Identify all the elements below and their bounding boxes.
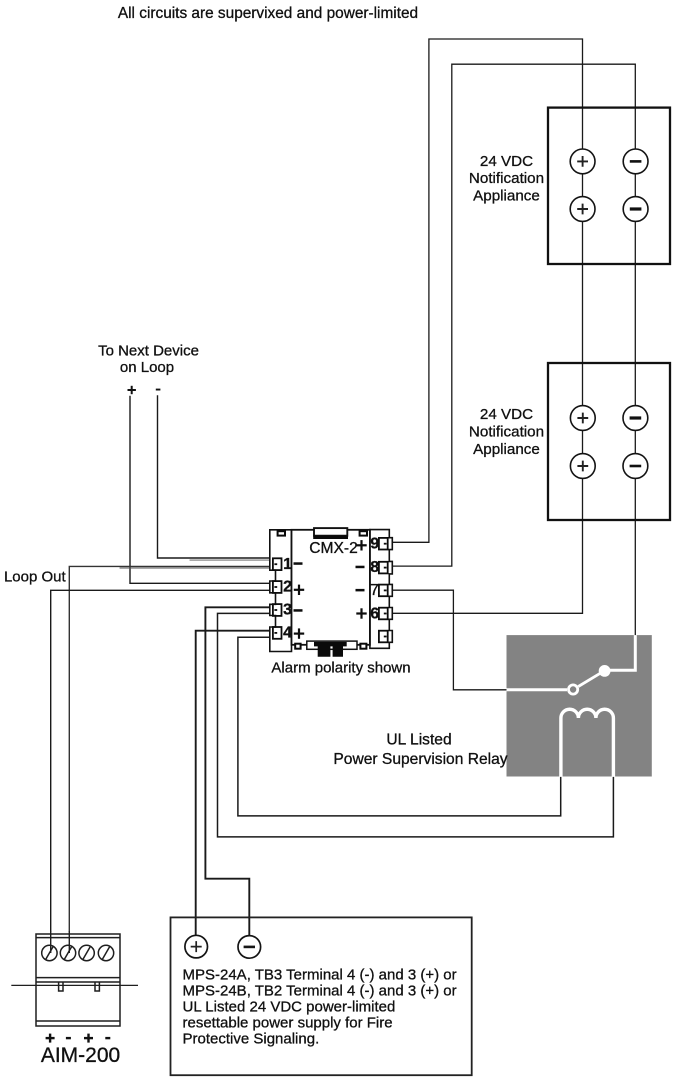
relay body: [507, 635, 652, 776]
appliance box 1 outline: [548, 108, 670, 264]
svg-text:Appliance: Appliance: [473, 441, 540, 458]
svg-text:8: 8: [370, 559, 379, 576]
svg-text:UL Listed: UL Listed: [386, 732, 451, 749]
relay contact to top wire: [605, 635, 636, 670]
CMX-2 module U1: [270, 528, 393, 657]
svg-text:24 VDC: 24 VDC: [480, 153, 533, 170]
terminal - circle B3: [623, 406, 648, 431]
AIM polarity labels: [46, 1034, 111, 1043]
terminal clip 8: [379, 562, 388, 574]
AIM screw 1: [42, 945, 57, 960]
next device +: [128, 386, 136, 394]
terminal clip 3: [273, 604, 282, 616]
terminal - circle A3: [623, 149, 648, 174]
svg-text:Notification: Notification: [469, 423, 544, 440]
relay contact arm: [578, 673, 601, 687]
UL Listed Power Supervision Relay K1: [333, 635, 651, 777]
24 VDC Notification Appliance box 1: [469, 108, 670, 264]
wire next-device + to terminal 2: [130, 397, 275, 584]
terminal + circle A1: [570, 149, 595, 174]
AIM screw 2: [60, 945, 75, 960]
svg-text:6: 6: [370, 605, 379, 622]
svg-text:Protective Signaling.: Protective Signaling.: [183, 1031, 320, 1048]
top connector: [314, 528, 347, 536]
module body: [292, 530, 370, 645]
svg-text:All circuits are supervixed an: All circuits are supervixed and power-li…: [118, 5, 418, 22]
MPS + terminal: [185, 935, 208, 958]
wire double-line detail terminal 1: [120, 560, 274, 568]
top-right hole: [360, 531, 367, 535]
polarity sign - pin7: [356, 589, 365, 592]
terminal clip 9: [379, 538, 388, 550]
svg-text:MPS-24B, TB2 Terminal 4 (-) an: MPS-24B, TB2 Terminal 4 (-) and 3 (+) or: [183, 982, 457, 999]
svg-text:Alarm polarity shown: Alarm polarity shown: [271, 659, 410, 676]
svg-text:Power Supervision Relay: Power Supervision Relay: [333, 751, 507, 768]
polarity sign - pin1: [294, 562, 303, 565]
AIM bottom line: [36, 1020, 120, 1022]
24 VDC Notification Appliance box 2: [469, 363, 670, 520]
polarity sign + pin4: [294, 628, 304, 638]
MPS box outline: [171, 917, 472, 1075]
AIM-200 body: [36, 934, 120, 1026]
svg-text:MPS-24A, TB3 Terminal 4 (-) an: MPS-24A, TB3 Terminal 4 (-) and 3 (+) or: [183, 966, 457, 983]
MPS - terminal: [238, 936, 261, 959]
terminal - circle B4: [623, 454, 648, 479]
terminal clip 4: [273, 627, 282, 639]
svg-text:1: 1: [283, 556, 292, 573]
svg-text:7: 7: [370, 582, 379, 599]
wire into screw 1: [50, 931, 52, 953]
polarity sign + pin2: [294, 585, 304, 595]
svg-text:AIM-200: AIM-200: [41, 1044, 120, 1067]
svg-text:3: 3: [283, 602, 292, 619]
AIM clip 2: [95, 982, 99, 991]
left terminal strip: [270, 530, 292, 652]
AIM-200 terminal block: [11, 931, 138, 1067]
wire into screw 2: [68, 931, 70, 953]
bottom connector black key: [314, 642, 347, 657]
terminal + circle B2: [570, 454, 595, 479]
relay contact pole circle: [569, 685, 578, 694]
relay contact common line: [507, 688, 568, 691]
svg-text:resettable power supply for Fi: resettable power supply for Fire: [183, 1015, 393, 1032]
AIM screw 4: [98, 945, 113, 960]
svg-text:Loop Out: Loop Out: [4, 568, 67, 585]
terminal clip 5 unlabeled: [379, 631, 388, 643]
svg-text:4: 4: [283, 625, 292, 642]
terminal + circle B1: [570, 406, 595, 431]
terminal clip 6: [379, 608, 388, 620]
terminal - circle A4: [623, 197, 648, 222]
bottom-left hole: [295, 644, 300, 649]
svg-text:UL Listed 24 VDC power-limited: UL Listed 24 VDC power-limited: [183, 999, 396, 1016]
terminal clip 2: [273, 581, 282, 593]
relay coil L1: [561, 709, 614, 777]
svg-text:Appliance: Appliance: [473, 188, 540, 205]
bottom-right hole: [360, 644, 366, 649]
wire terminal 4 to MPS +: [196, 631, 275, 936]
svg-text:Notification: Notification: [469, 170, 544, 187]
AIM top inner line: [36, 937, 120, 939]
AIM divider lines: [36, 977, 120, 979]
svg-text:24 VDC: 24 VDC: [480, 406, 533, 423]
svg-text:2: 2: [283, 579, 292, 596]
relay contact fixed dot: [599, 665, 611, 677]
polarity sign + pin9: [356, 540, 366, 550]
bottom connector housing: [307, 641, 357, 649]
wire net NAC- : CMX-2 terminal 8 up over top down through - terminals to relay switch: [387, 64, 635, 636]
wire loop out A : terminal 1 to AIM-200 screw 2: [69, 566, 275, 931]
MPS power supply box: [171, 917, 472, 1075]
appliance box 2 outline: [548, 363, 670, 520]
AIM mounting line: [11, 984, 138, 986]
terminal clip 7: [379, 585, 388, 597]
wire terminal 7 to relay switch common: [387, 590, 508, 690]
svg-text:9: 9: [370, 535, 379, 552]
polarity sign + pin6: [356, 608, 366, 618]
wire terminal 4 to relay coil left leg: [238, 637, 561, 816]
wire terminal 3 to MPS -: [205, 607, 275, 936]
terminal clip 1: [273, 558, 282, 570]
polarity sign - pin8: [356, 566, 365, 569]
next device -: [156, 389, 161, 391]
svg-text:CMX-2: CMX-2: [309, 540, 358, 557]
svg-text:To Next Device: To Next Device: [98, 343, 199, 360]
wire next-device - to terminal 1: [158, 396, 276, 558]
wire net NAC+ : CMX-2 terminal 9 up over top down through + terminals to terminal 6: [387, 39, 583, 613]
right terminal strip: [370, 530, 392, 649]
svg-text:on Loop: on Loop: [120, 359, 174, 376]
AIM clip 1: [59, 982, 63, 991]
top-left hole: [278, 531, 285, 535]
polarity sign - pin3: [294, 609, 303, 612]
wire terminal 3 to relay coil right leg: [218, 613, 614, 837]
wire loop out B : terminal 2 to AIM-200 screw 1: [51, 590, 275, 931]
AIM screw 3: [79, 945, 94, 960]
terminal + circle A2: [570, 197, 595, 222]
